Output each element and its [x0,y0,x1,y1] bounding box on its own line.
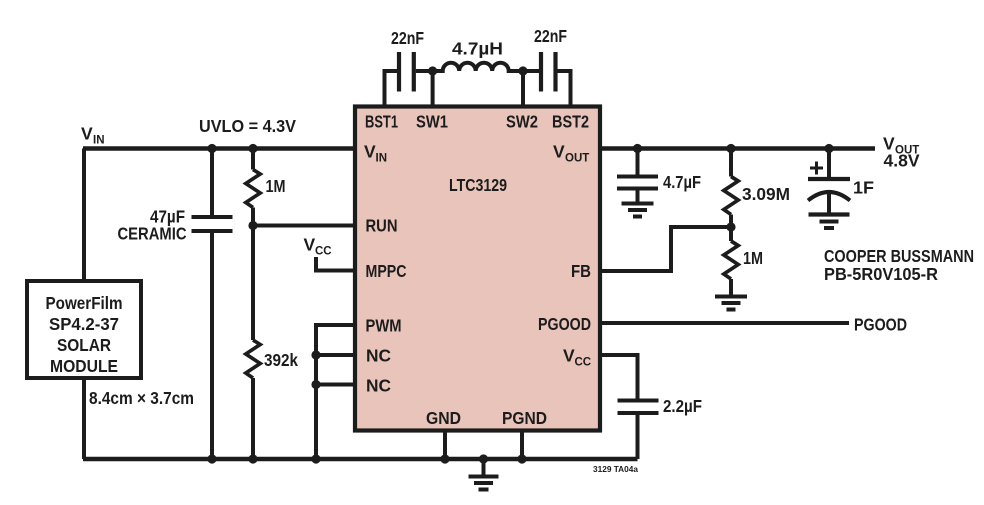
pin label VOUT inside [553,142,589,165]
svg-text:4.8V: 4.8V [884,151,920,171]
svg-text:V: V [553,142,565,162]
svg-text:V: V [364,142,376,162]
svg-text:1M: 1M [266,176,286,196]
pin label BST1 [365,112,398,132]
svg-text:22nF: 22nF [534,26,567,46]
svg-text:NC: NC [366,376,391,396]
wire VIN drop to solar module [82,149,86,282]
svg-text:4.7µH: 4.7µH [452,39,503,59]
svg-text:LTC3129: LTC3129 [449,175,507,195]
wire PGND pin [517,430,526,464]
node C3-rail junction [207,454,216,463]
node NC1 junction [311,350,355,359]
svg-text:22nF: 22nF [391,28,424,48]
wire VCC pin to C6 [600,355,638,399]
node VCC left label [304,235,332,258]
capacitor C1 22nF [391,28,424,92]
wire RUN [253,224,355,228]
svg-text:1F: 1F [853,178,874,198]
svg-text:SW1: SW1 [416,112,448,132]
pin label GND [426,408,461,428]
ground symbol R4 [715,297,747,310]
label figure number [593,464,638,474]
ground symbol C4 [622,204,654,217]
wire C6 to ground rail [636,415,640,460]
node VOUT label [883,134,920,171]
node VIN-R1 junction [248,144,257,153]
label solar module size [89,388,194,408]
svg-text:V: V [81,124,93,144]
capacitor C5 1F supercap [808,149,874,213]
node RUN junction [248,221,257,230]
pin label SW1 [416,112,448,132]
capacitor C4 4.7uF [617,149,701,202]
svg-text:IN: IN [376,153,388,165]
svg-text:PGOOD: PGOOD [854,315,907,335]
svg-text:UVLO = 4.3V: UVLO = 4.3V [199,116,296,136]
svg-text:CC: CC [575,357,592,369]
wire PGOOD [600,321,849,325]
svg-text:1M: 1M [743,248,763,268]
pin label NC1 [366,346,391,366]
svg-text:V: V [304,235,316,255]
wire PWM chain [316,325,355,459]
svg-text:CC: CC [315,246,332,258]
pin label SW2 [506,112,538,132]
pin label PGOOD inside [538,314,591,334]
pin label NC2 [366,376,391,396]
pin label MPPC [366,261,407,281]
pin label BST2 [552,112,589,132]
svg-text:V: V [563,346,575,366]
pin label VCC inside [563,346,591,369]
wire solar module to ground rail [82,378,86,459]
ground symbol C5 [809,215,850,229]
pin label PGND [502,408,547,428]
pin label FB [571,261,591,281]
wire C3 bottom lead [210,233,214,460]
wire FB [600,227,731,271]
svg-text:COOPER BUSSMANN: COOPER BUSSMANN [824,246,974,266]
node SW1 junction [428,66,437,106]
svg-text:MPPC: MPPC [366,261,407,281]
label UVLO [199,116,296,136]
label supercap part [824,246,974,284]
capacitor C6 2.2uF [618,396,703,416]
node PWM-rail junction [311,454,320,463]
svg-text:RUN: RUN [366,216,398,236]
IC U1 LTC3129 body [355,107,600,431]
node VOUT-C5 junction [824,144,833,153]
wire VCC to MPPC [316,257,355,271]
node R2-rail junction [248,454,257,463]
node VOUT-C4 junction [633,144,642,153]
inductor L1 4.7uH [433,39,523,72]
resistor R1 1M [246,149,286,226]
ground symbol main [469,454,499,489]
wire C2 to BST2 [558,71,571,106]
node VIN label [81,124,105,147]
capacitor C2 22nF [534,26,567,92]
svg-text:PGND: PGND [502,408,547,428]
svg-text:2.2µF: 2.2µF [663,396,702,416]
wire SW2 node to C2 [523,69,539,73]
svg-text:SOLAR: SOLAR [57,335,111,355]
node FB junction [726,222,735,231]
node SW2 junction [518,66,527,106]
resistor R3 3.09M [724,149,790,228]
resistor R4 1M [724,227,763,295]
wire C3 top lead [210,149,214,216]
node PGOOD label [854,315,907,335]
svg-text:4.7µF: 4.7µF [663,172,701,192]
node NC2 junction [311,380,355,389]
svg-text:3129 TA04a: 3129 TA04a [593,464,638,474]
wire VIN rail [83,146,355,151]
capacitor C3 47uF ceramic [118,207,233,244]
svg-text:BST1: BST1 [365,112,398,132]
svg-text:FB: FB [571,261,591,281]
svg-text:PGOOD: PGOOD [538,314,591,334]
svg-text:CERAMIC: CERAMIC [118,224,187,244]
svg-text:OUT: OUT [565,153,589,165]
wire C1 to SW1 node [416,69,433,73]
wire BST1 to C1 [385,71,398,106]
svg-text:BST2: BST2 [552,112,589,132]
solar module PS1 PowerFilm box [27,281,141,378]
svg-text:PWM: PWM [366,316,402,336]
svg-text:392k: 392k [264,350,298,370]
svg-text:8.4cm × 3.7cm: 8.4cm × 3.7cm [89,388,194,408]
svg-text:PB-5R0V105-R: PB-5R0V105-R [824,264,938,284]
wire GND pin [440,430,449,464]
wire VOUT rail [600,146,875,151]
svg-text:3.09M: 3.09M [742,184,790,204]
resistor R2 392k [246,226,298,460]
pin label PWM [366,316,402,336]
pin label VIN inside [364,142,387,165]
pin label RUN [366,216,398,236]
svg-text:IN: IN [93,135,105,147]
node VOUT-R3 junction [726,144,735,153]
svg-text:NC: NC [366,346,391,366]
node VIN-C3 junction [207,144,216,153]
wire ground rail [83,457,638,462]
svg-text:PowerFilm: PowerFilm [46,293,123,313]
svg-text:SP4.2-37: SP4.2-37 [49,314,119,334]
svg-text:SW2: SW2 [506,112,538,132]
svg-text:GND: GND [426,408,461,428]
svg-text:MODULE: MODULE [50,356,118,376]
